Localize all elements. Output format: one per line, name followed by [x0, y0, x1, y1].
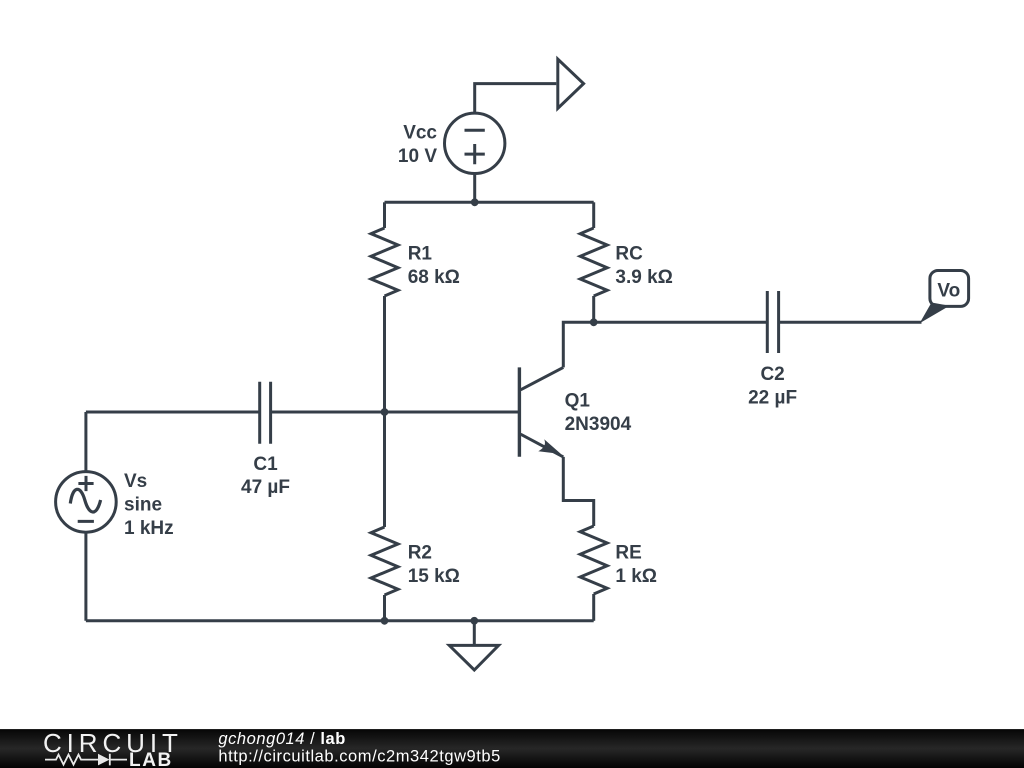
- svg-text:RE: RE: [615, 543, 641, 564]
- logo resistor-diode symbol: [45, 754, 127, 766]
- wire R2 top lead: [383, 412, 386, 527]
- plus sign of Vs: [78, 476, 93, 491]
- svg-text:2N3904: 2N3904: [565, 414, 632, 435]
- wire collector jog: [563, 322, 593, 367]
- minus sign of Vs: [78, 520, 94, 523]
- voltage source V1 Vcc: [445, 113, 505, 173]
- svg-text:68 kΩ: 68 kΩ: [408, 267, 460, 288]
- capacitor C2 plates: [767, 291, 778, 353]
- wire emitter jog: [563, 457, 593, 526]
- transistor Q1 emitter lead: [521, 434, 564, 457]
- svg-text:22 µF: 22 µF: [748, 387, 797, 408]
- wire R1 bottom lead: [383, 296, 386, 412]
- svg-text:Vcc: Vcc: [403, 123, 437, 144]
- node flag Vo tail: [920, 303, 950, 324]
- svg-text:47 µF: 47 µF: [241, 477, 290, 498]
- sine symbol of Vs: [70, 489, 100, 512]
- resistor R1: [371, 228, 398, 296]
- node junction base/R1/R2: [381, 408, 389, 416]
- wire RE bottom lead: [592, 594, 595, 621]
- plus sign of Vcc: [465, 144, 485, 164]
- svg-text:sine: sine: [124, 495, 162, 516]
- voltage source Vs circle: [56, 472, 117, 533]
- node junction Vcc/top bus: [471, 198, 479, 206]
- wire base bus: [271, 411, 520, 414]
- svg-text:Vo: Vo: [937, 281, 960, 302]
- minus sign of Vcc: [465, 129, 485, 132]
- svg-text:R1: R1: [408, 244, 433, 265]
- svg-text:15 kΩ: 15 kΩ: [408, 566, 460, 587]
- svg-text:C2: C2: [760, 364, 784, 385]
- wire Vs top lead: [84, 412, 87, 472]
- transistor Q1 collector lead: [521, 367, 564, 389]
- node junction ground/bottom bus: [470, 617, 478, 625]
- wire Vs to C1: [86, 411, 260, 414]
- svg-text:3.9 kΩ: 3.9 kΩ: [615, 267, 673, 288]
- wire collector to C2: [594, 321, 768, 324]
- ground symbol: [449, 645, 498, 670]
- svg-text:LAB: LAB: [129, 750, 173, 768]
- resistor RE: [580, 526, 607, 594]
- wire C2 to Vo: [779, 321, 922, 324]
- svg-text:R2: R2: [408, 543, 432, 564]
- svg-text:gchong014 / lab: gchong014 / lab: [218, 730, 346, 748]
- transistor Q1 body bar: [518, 367, 521, 456]
- ground stem: [473, 621, 476, 646]
- node junction collector: [590, 318, 598, 326]
- wire bottom bus: [86, 619, 594, 622]
- resistor RC: [580, 228, 607, 296]
- svg-text:Q1: Q1: [565, 391, 591, 412]
- wire Vcc bottom lead: [473, 174, 476, 203]
- svg-text:C1: C1: [253, 454, 278, 475]
- wire Vs bottom lead: [84, 532, 87, 621]
- wire R1 top lead: [383, 202, 386, 228]
- svg-text:1 kHz: 1 kHz: [124, 518, 174, 539]
- svg-text:Vs: Vs: [124, 471, 147, 492]
- power flag VCC: [558, 59, 584, 108]
- wire RC top lead: [592, 202, 595, 228]
- svg-text:RC: RC: [615, 244, 643, 265]
- wire R2 bottom lead: [383, 595, 386, 621]
- resistor R2: [371, 527, 398, 595]
- node flag Vo box: [930, 271, 969, 307]
- transistor Q1 emitter arrow: [538, 439, 561, 454]
- capacitor C1 plates: [260, 382, 271, 444]
- wire RC bottom lead: [592, 296, 595, 322]
- svg-text:1 kΩ: 1 kΩ: [615, 566, 657, 587]
- svg-text:http://circuitlab.com/c2m342tg: http://circuitlab.com/c2m342tgw9tb5: [218, 748, 500, 766]
- wire top bus: [385, 201, 594, 204]
- svg-text:10 V: 10 V: [398, 146, 437, 167]
- node junction R2/bottom bus: [381, 617, 389, 625]
- wire Vcc to flag: [475, 84, 557, 114]
